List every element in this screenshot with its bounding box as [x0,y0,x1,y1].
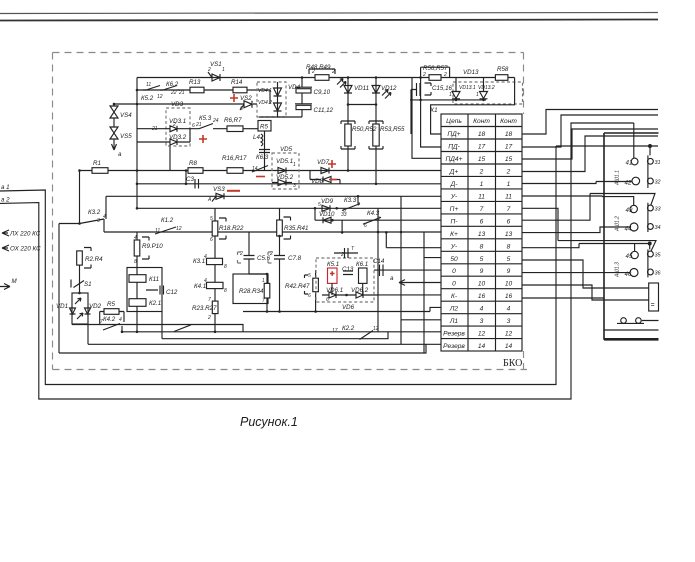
svg-text:17: 17 [332,328,338,334]
svg-text:32: 32 [655,180,661,186]
svg-text:34: 34 [655,225,661,231]
svg-text:Резерв: Резерв [443,343,465,350]
svg-text:9: 9 [377,216,380,222]
svg-text:12: 12 [176,226,182,232]
svg-text:VS5: VS5 [120,133,132,140]
svg-text:АШ1.1: АШ1.1 [615,170,621,186]
svg-text:БКО: БКО [503,358,522,369]
svg-text:3: 3 [293,183,296,189]
svg-text:ПД+: ПД+ [447,131,460,138]
svg-text:R42.R47: R42.R47 [285,283,310,290]
svg-text:4: 4 [357,202,360,208]
svg-text:6: 6 [192,123,195,129]
svg-text:15: 15 [478,156,486,163]
svg-text:R50,R52: R50,R52 [352,126,377,133]
svg-text:VD6.1: VD6.1 [326,287,343,294]
svg-text:С5.6: С5.6 [257,255,271,262]
svg-text:VD1: VD1 [56,303,68,310]
svg-text:К2.1: К2.1 [149,300,161,307]
svg-text:43: 43 [626,207,633,214]
svg-text:14: 14 [505,343,513,350]
svg-text:С13: С13 [342,266,354,273]
svg-text:10: 10 [478,281,486,288]
svg-text:VD4: VD4 [288,84,301,91]
svg-text:R28.R34: R28.R34 [239,288,264,295]
svg-text:VD4.1: VD4.1 [258,88,272,94]
svg-text:4: 4 [103,214,106,220]
svg-text:0: 0 [452,268,456,275]
svg-text:К2.2: К2.2 [342,325,355,332]
svg-text:X1: X1 [429,107,438,114]
svg-text:2: 2 [422,72,426,78]
svg-text:21: 21 [178,90,185,96]
svg-text:21: 21 [151,126,158,132]
svg-text:2: 2 [443,72,447,78]
svg-text:Л2: Л2 [449,306,459,313]
svg-text:12: 12 [157,94,163,100]
svg-text:1: 1 [480,181,484,188]
svg-text:VD13.1: VD13.1 [459,85,476,91]
svg-text:6: 6 [364,223,367,229]
svg-text:21: 21 [195,122,202,128]
svg-text:2: 2 [311,69,315,75]
svg-text:4: 4 [204,254,207,260]
svg-text:С14: С14 [373,258,385,265]
svg-text:R48,R49: R48,R49 [306,64,331,71]
svg-text:ПД4+: ПД4+ [446,156,463,163]
svg-text:М: М [12,278,18,285]
svg-text:12: 12 [478,331,486,338]
svg-text:16: 16 [478,293,486,300]
svg-text:4: 4 [204,278,207,284]
svg-text:а: а [390,275,394,282]
svg-text:R18.R22: R18.R22 [219,225,244,232]
svg-text:16: 16 [505,293,513,300]
svg-text:Цепь: Цепь [446,118,462,125]
svg-text:6: 6 [326,297,329,303]
svg-text:R53,R55: R53,R55 [380,126,405,133]
svg-text:VD8: VD8 [311,178,324,185]
svg-text:7: 7 [262,298,265,304]
svg-text:8: 8 [507,243,511,250]
svg-text:VD4.2: VD4.2 [258,100,272,106]
svg-text:VD13: VD13 [463,69,479,76]
svg-text:31: 31 [655,160,661,166]
svg-text:R5: R5 [107,301,115,308]
svg-text:4: 4 [507,306,511,313]
svg-text:R16,R17: R16,R17 [222,155,247,162]
svg-text:36: 36 [655,271,662,277]
svg-text:R2.R4: R2.R4 [85,256,103,263]
svg-text:VD11: VD11 [354,85,369,92]
svg-text:К3.2: К3.2 [88,209,101,216]
svg-text:ЛХ 220 КС: ЛХ 220 КС [9,231,41,238]
svg-text:С3: С3 [186,176,194,183]
svg-text:2: 2 [479,168,484,175]
svg-text:К1.2: К1.2 [161,217,174,224]
svg-text:VD6.2: VD6.2 [351,287,369,294]
svg-text:33: 33 [341,212,347,218]
svg-text:К4.2: К4.2 [103,316,116,323]
svg-text:5: 5 [507,256,511,263]
svg-text:R56,R57: R56,R57 [423,65,448,72]
svg-text:VS4: VS4 [120,112,132,119]
svg-text:R5: R5 [260,124,268,131]
svg-text:С12: С12 [166,289,178,296]
svg-text:С7.8: С7.8 [288,255,302,262]
svg-text:R14: R14 [231,79,243,86]
svg-text:VD10: VD10 [319,211,335,218]
svg-text:К5.2: К5.2 [141,95,154,102]
svg-text:50: 50 [450,256,458,263]
svg-text:Рисунок.1: Рисунок.1 [240,415,298,429]
svg-text:АШ1.2: АШ1.2 [615,216,621,232]
svg-text:VD6: VD6 [342,304,355,311]
svg-text:У-: У- [450,193,458,200]
svg-text:4: 4 [119,317,122,323]
svg-text:R8: R8 [189,160,197,167]
svg-text:6: 6 [210,237,213,243]
svg-text:С11,12: С11,12 [314,107,334,114]
svg-text:VD5.1: VD5.1 [276,158,293,165]
svg-text:33: 33 [655,207,662,213]
svg-text:4: 4 [480,306,484,313]
svg-text:VD3: VD3 [171,101,184,108]
svg-text:R9.Р10: R9.Р10 [142,243,163,250]
svg-text:14: 14 [478,343,486,350]
svg-text:15: 15 [505,156,513,163]
svg-text:11: 11 [155,228,160,234]
svg-text:18: 18 [478,131,486,138]
svg-text:R1: R1 [93,160,101,167]
svg-text:К6.1: К6.1 [356,261,368,268]
svg-text:42: 42 [625,180,632,187]
svg-text:2: 2 [506,168,511,175]
svg-text:R35.R41: R35.R41 [284,225,308,232]
svg-text:14: 14 [252,166,258,172]
svg-text:S1: S1 [84,281,92,288]
svg-text:2: 2 [269,251,273,257]
svg-text:VD5: VD5 [280,146,293,153]
svg-text:5: 5 [318,202,321,208]
svg-text:5: 5 [308,273,311,279]
svg-text:2: 2 [340,252,344,258]
svg-text:3: 3 [507,318,511,325]
svg-text:41: 41 [626,160,633,167]
svg-text:8: 8 [480,243,484,250]
svg-text:1: 1 [476,92,479,98]
svg-text:5: 5 [480,256,484,263]
svg-text:2: 2 [239,251,243,257]
svg-text:К3.3: К3.3 [344,197,357,204]
svg-text:К+: К+ [450,231,458,238]
svg-text:VD3.1: VD3.1 [169,118,186,125]
svg-text:1: 1 [222,67,225,73]
svg-text:1: 1 [449,92,452,98]
svg-text:а 2: а 2 [1,197,10,204]
svg-text:6: 6 [480,218,484,225]
svg-text:17: 17 [478,144,486,151]
svg-text:С9,10: С9,10 [314,89,331,96]
svg-text:VD13.2: VD13.2 [478,85,495,91]
svg-text:VD2: VD2 [89,303,102,310]
svg-text:0: 0 [452,281,456,288]
svg-text:5: 5 [210,216,213,222]
svg-text:7: 7 [507,206,511,213]
svg-text:VD12: VD12 [381,85,397,92]
svg-text:П+: П+ [450,206,459,213]
svg-text:10: 10 [505,281,513,288]
svg-text:П-: П- [451,218,459,225]
svg-text:7: 7 [208,297,211,303]
svg-text:11: 11 [505,193,512,200]
svg-text:6: 6 [240,106,243,112]
svg-text:Конт: Конт [473,118,490,125]
svg-text:L4: L4 [253,134,260,141]
svg-text:12: 12 [505,331,513,338]
svg-text:35: 35 [655,253,662,259]
svg-text:4: 4 [134,235,137,241]
svg-text:К11: К11 [149,276,159,283]
svg-text:3: 3 [97,218,100,224]
svg-text:17: 17 [505,144,513,151]
svg-text:К-: К- [451,293,458,300]
svg-text:24: 24 [212,118,219,124]
svg-text:1: 1 [507,181,511,188]
svg-text:VS1: VS1 [210,61,222,68]
svg-text:1: 1 [293,162,296,168]
svg-text:3: 3 [480,318,484,325]
svg-text:а: а [118,151,122,158]
svg-text:11: 11 [146,82,151,88]
svg-text:Резерв: Резерв [443,331,465,338]
svg-text:7: 7 [480,206,484,213]
svg-text:К4.1: К4.1 [194,283,206,290]
svg-text:9: 9 [507,268,511,275]
svg-text:К5.3: К5.3 [199,115,212,122]
svg-text:13: 13 [505,231,513,238]
svg-text:2: 2 [207,315,211,321]
svg-text:Д-: Д- [450,181,459,188]
svg-text:Д+: Д+ [449,168,459,175]
svg-text:Т: Т [351,246,355,252]
svg-text:R23.R27: R23.R27 [192,305,217,312]
svg-text:VD3.2: VD3.2 [169,134,187,141]
svg-text:У-: У- [450,243,458,250]
svg-text:6: 6 [308,293,311,299]
svg-text:R13: R13 [189,79,201,86]
svg-text:С15,16: С15,16 [432,85,453,92]
svg-text:6: 6 [507,218,511,225]
svg-text:а 1: а 1 [1,184,10,191]
svg-text:Конт: Конт [500,118,517,125]
svg-text:VS2: VS2 [240,95,252,102]
svg-text:VD5.2: VD5.2 [276,174,294,181]
svg-text:R58: R58 [497,66,509,73]
svg-text:11: 11 [478,193,485,200]
svg-text:8: 8 [134,259,137,265]
svg-text:К5.1: К5.1 [327,261,339,268]
svg-text:VD7: VD7 [317,159,330,166]
svg-text:8: 8 [224,288,227,294]
svg-text:=: = [651,302,655,309]
svg-text:44: 44 [625,226,632,233]
svg-text:18: 18 [505,131,513,138]
svg-text:7: 7 [100,319,103,325]
svg-text:12: 12 [373,326,379,332]
svg-text:VS3: VS3 [213,186,225,193]
svg-text:К6.2: К6.2 [166,81,179,88]
svg-text:R6,R7: R6,R7 [224,117,242,124]
svg-text:ОХ 220 КС: ОХ 220 КС [10,246,41,253]
svg-text:АШ1.3: АШ1.3 [615,262,621,278]
svg-text:А: А [207,197,212,203]
svg-text:2: 2 [331,69,335,75]
svg-text:45: 45 [626,253,633,260]
svg-text:2: 2 [172,122,176,128]
svg-text:13: 13 [478,231,486,238]
svg-text:2: 2 [207,67,211,73]
svg-text:22: 22 [170,90,177,96]
svg-text:9: 9 [480,268,484,275]
svg-text:Л1: Л1 [449,318,459,325]
svg-text:46: 46 [625,271,632,278]
svg-text:ПД-: ПД- [448,144,460,151]
svg-text:1: 1 [262,278,265,284]
svg-text:8: 8 [224,264,227,270]
svg-text:VD9: VD9 [321,198,334,205]
svg-text:К6.3: К6.3 [256,154,269,161]
